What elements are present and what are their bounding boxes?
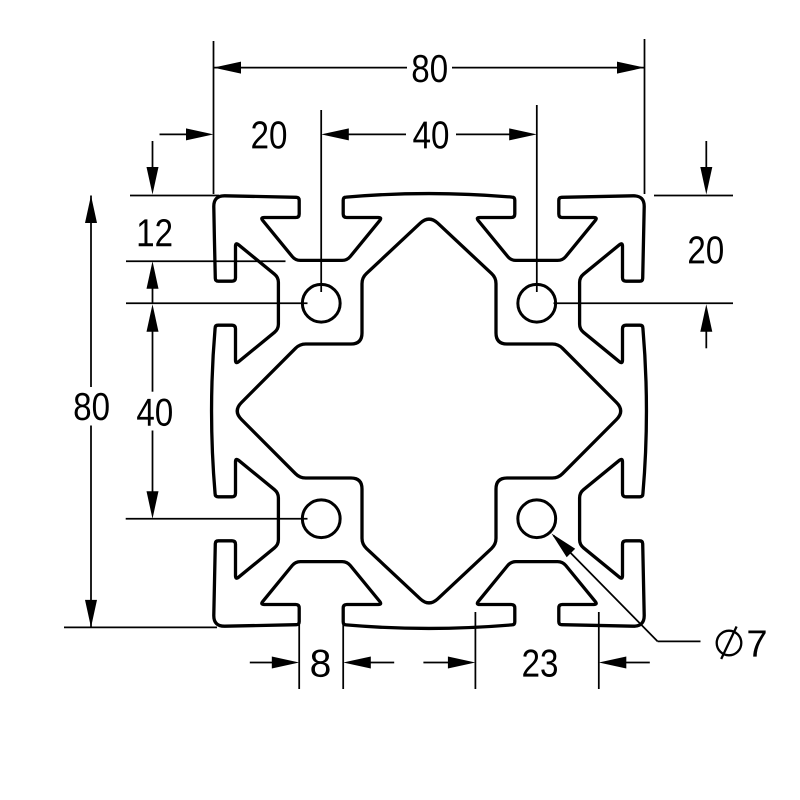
arrowhead dim 40 top left <box>321 128 349 140</box>
bolt hole top-right <box>518 284 556 322</box>
extension line, profile top edge (right) <box>654 195 733 197</box>
centreline of bottom-left hole (horizontal) <box>126 518 308 520</box>
arrowhead group <box>85 62 712 669</box>
arrowhead dim 8 (outside left) <box>272 657 299 669</box>
arrowhead dim 20 right (outside below) <box>700 304 712 332</box>
dimension text "20" <box>252 121 286 149</box>
dimension line 80 top, right half <box>452 67 645 69</box>
dimension text "7" <box>748 630 765 656</box>
leader line horizontal segment <box>658 640 701 642</box>
extension line, slot floor depth 12 <box>126 260 286 262</box>
arrowhead dim 12 (outside above) <box>147 167 159 195</box>
dimension text "8" <box>311 649 329 677</box>
dimension text "12" <box>139 219 172 246</box>
arrowhead dim 80 left top <box>85 196 97 224</box>
dimension line 80 left, upper half <box>90 196 92 388</box>
centreline of top-right hole (horizontal) <box>554 302 734 304</box>
dimension line 40 top, left half <box>347 133 406 135</box>
leader arrowhead at hole edge <box>552 534 576 558</box>
arrowhead dim 12 (outside above) tail <box>152 141 154 178</box>
extension line, slot neck right edge <box>342 611 344 689</box>
extension line, profile top edge (left) <box>130 195 219 197</box>
dimension text "20" <box>689 236 723 264</box>
extrusion profile outer contour <box>212 194 647 629</box>
arrowhead dim 12 (outside below) <box>147 261 159 289</box>
dimension text "40" <box>413 121 448 149</box>
arrowhead dim 80 top right <box>617 62 645 74</box>
dimension and extension line group <box>64 39 733 689</box>
diameter symbol circle <box>717 631 742 656</box>
bolt hole bottom-right <box>518 500 556 538</box>
leader line diagonal segment (to bottom-right hole) <box>554 536 658 642</box>
centreline of top-left hole (horizontal) <box>126 302 308 304</box>
extension line, profile left edge <box>213 41 215 194</box>
extension line, profile bottom edge <box>64 626 217 628</box>
arrowhead dim 80 top left <box>214 62 242 74</box>
arrowhead dim 20 right (outside below) tail <box>705 321 707 349</box>
arrowhead dim 23 (outside left) <box>448 657 476 669</box>
arrowhead dim 80 left bottom <box>85 600 97 628</box>
arrowhead dim 23 (outside left) tail <box>423 662 459 664</box>
dimension text "23" <box>523 649 557 677</box>
dimension line 40 left, lower half <box>152 431 154 493</box>
dimension text group <box>75 55 766 677</box>
arrowhead dim 23 (outside right) <box>599 657 627 669</box>
arrowhead dim 23 (outside right) tail <box>615 662 650 664</box>
arrowhead dim 12 (outside below) tail <box>152 278 154 304</box>
centreline of top-right hole (vertical) <box>536 105 538 292</box>
centreline of top-left hole (vertical) <box>320 110 322 292</box>
arrowhead dim 8 (outside right) tail <box>360 662 394 664</box>
dimension line 40 top, right half <box>456 133 511 135</box>
arrowhead dim 20 top (outside left) <box>186 128 214 140</box>
extension line, slot cavity left wall <box>474 612 476 689</box>
arrowhead dim 8 (outside right) <box>343 657 371 669</box>
dimension line 40 left, upper half <box>152 330 154 391</box>
extension line, slot cavity right wall <box>598 612 600 689</box>
central cavity <box>237 219 621 603</box>
arrowhead dim 20 right (outside above) tail <box>705 141 707 178</box>
dimension line 80 left, lower half <box>90 426 92 628</box>
arrowhead dim 40 top right <box>509 128 537 140</box>
arrowhead dim 40 left bottom <box>147 491 159 519</box>
extension line, profile right edge <box>644 39 646 194</box>
bolt hole bottom-left <box>302 500 340 538</box>
dimension line 80 top, left half <box>214 67 408 69</box>
dimension text "80" <box>75 393 109 421</box>
arrowhead dim 8 (outside left) tail <box>250 662 283 664</box>
dimension text "80" <box>413 55 447 83</box>
arrowhead dim 20 right (outside above) <box>700 167 712 195</box>
arrowhead dim 20 top (outside left) tail <box>160 133 198 135</box>
extension line, slot neck left edge <box>298 611 300 689</box>
arrowhead dim 40 left top <box>147 304 159 332</box>
diameter symbol slash <box>721 627 736 660</box>
bolt hole top-left <box>302 284 340 322</box>
dimension text "40" <box>137 398 172 426</box>
